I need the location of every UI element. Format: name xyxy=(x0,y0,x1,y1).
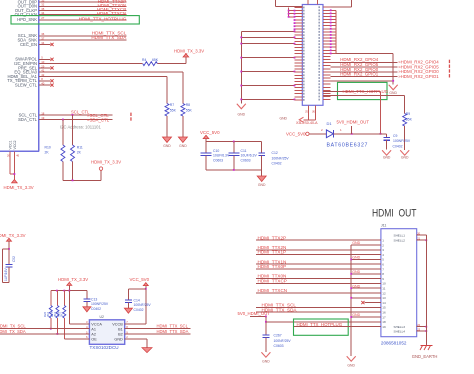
wire net HDMI_TTX_HOTPLUG from U1 pin HPD_SNK xyxy=(17,16,127,22)
svg-text:R11: R11 xyxy=(77,145,83,149)
wire net HDMI_TTX_HOTPLUG from U3 xyxy=(323,89,389,94)
wire net SDA_CTL from U1 pin 19 xyxy=(18,116,112,123)
svg-text:1UF/16V: 1UF/16V xyxy=(4,268,8,281)
green highlight box HPD_SNK xyxy=(11,16,139,24)
off-page flag SDA_CTL xyxy=(130,117,131,120)
capacitor C14 100NF/25V xyxy=(125,289,152,312)
wire net HDMI_TTXCN from U1 pin OUT_CLKN xyxy=(15,11,127,17)
ground under U2 xyxy=(142,348,152,353)
U3 part number xyxy=(296,121,318,125)
wire net HDMI_TTX0P to J11 pin 7 xyxy=(256,264,381,269)
wire net HDMI_TTX_SDA from U1 pin SDA_SNK xyxy=(17,35,127,43)
svg-text:19: 19 xyxy=(382,325,386,329)
J11 shell pin names xyxy=(394,233,406,333)
wire cap rail bottom xyxy=(206,169,262,176)
resistor R4 65K xyxy=(142,58,159,65)
wire R7 to GND xyxy=(166,116,168,137)
note I2C address xyxy=(60,125,101,130)
wire net HDMI_TTX_HOTPLUG to J11 pin 19 xyxy=(294,322,381,327)
svg-text:HDMI_RX2_GPIO1: HDMI_RX2_GPIO1 xyxy=(340,72,379,77)
no-connect U1 pin SLEW_CTL xyxy=(15,82,54,88)
svg-text:VCC_5V0: VCC_5V0 xyxy=(130,277,150,282)
svg-text:HDMI_TX_3.3V: HDMI_TX_3.3V xyxy=(0,233,26,238)
resistor R9 55K xyxy=(403,112,413,126)
svg-text:I2C Address: 1011101: I2C Address: 1011101 xyxy=(60,125,101,130)
svg-text:HDMI_TTX_SCL: HDMI_TTX_SCL xyxy=(157,323,189,328)
svg-text:40: 40 xyxy=(41,82,45,86)
power VCC_5V0 at caps xyxy=(200,130,220,142)
power HDMI_TX_3.3V at C52 xyxy=(0,233,26,265)
svg-text:GND: GND xyxy=(258,183,266,187)
svg-text:SHELL2: SHELL2 xyxy=(394,239,406,243)
wire net HDMI_TTX0N to J11 pin 9 xyxy=(256,274,381,279)
svg-text:C0402: C0402 xyxy=(272,162,282,166)
svg-text:18: 18 xyxy=(382,320,386,324)
svg-text:65K: 65K xyxy=(152,58,159,62)
ground under C14 xyxy=(124,308,132,313)
svg-text:R10: R10 xyxy=(45,145,51,149)
junction on SDA_CTL at R10 xyxy=(62,119,64,121)
wire R9 to GND xyxy=(404,126,406,150)
wire U1 pin I2C_EN/PIN to R4 xyxy=(14,60,143,66)
resistor R7 55K xyxy=(165,103,177,116)
wire net HDMI_TTX2N to J11 pin 3 xyxy=(256,245,381,250)
svg-text:HDMI_TTX_SDA: HDMI_TTX_SDA xyxy=(91,35,127,40)
svg-text:B2: B2 xyxy=(118,333,123,337)
U2 pin names xyxy=(91,323,123,342)
resistor R10 2K xyxy=(45,145,65,162)
svg-text:HDMI_TX_3.3V: HDMI_TX_3.3V xyxy=(174,48,204,53)
wire net HDMI_TX_SCL to U2 A1 xyxy=(0,323,89,328)
power HDMI_TX_3.3V at R4 xyxy=(174,48,204,57)
svg-text:SHELL4: SHELL4 xyxy=(394,329,406,333)
IC U1 HDMI transmitter body edge xyxy=(0,0,39,151)
wire U2 OE row xyxy=(64,338,89,340)
wire net 5V0_HDMI_OUT xyxy=(334,120,387,135)
svg-text:19: 19 xyxy=(41,116,45,120)
title HDMI OUT xyxy=(372,208,417,220)
svg-text:VCCB: VCCB xyxy=(112,323,123,327)
capacitor C13 100NF/25V xyxy=(83,291,109,311)
svg-text:55K: 55K xyxy=(186,109,193,113)
wire U2 GND pin xyxy=(125,339,147,348)
U3 bottom GND pins xyxy=(304,105,316,120)
resistor R27 2K2 xyxy=(50,291,59,318)
svg-text:A1: A1 xyxy=(91,327,96,331)
svg-text:GND: GND xyxy=(238,112,246,116)
svg-text:55K: 55K xyxy=(406,118,413,122)
ground GND left-arrow at U3 bottom xyxy=(279,117,303,123)
svg-text:GND: GND xyxy=(352,270,360,274)
ground GND top right xyxy=(389,85,398,95)
svg-text:HDMI_TTXCN: HDMI_TTXCN xyxy=(258,288,288,293)
svg-text:C52: C52 xyxy=(12,256,16,262)
svg-text:OUT_CLKN: OUT_CLKN xyxy=(15,12,37,17)
svg-text:SHELL1: SHELL1 xyxy=(394,233,406,237)
svg-text:16: 16 xyxy=(382,311,386,315)
svg-text:100NF/25V: 100NF/25V xyxy=(274,339,292,343)
wire net 5V0_HDMI_OUT to J11 xyxy=(238,311,381,335)
ground GND under R7 xyxy=(163,137,172,148)
svg-text:GND: GND xyxy=(352,241,360,245)
svg-text:HDMI_TTX1P: HDMI_TTX1P xyxy=(258,250,287,255)
svg-text:VCC_5V0: VCC_5V0 xyxy=(200,130,220,135)
wire R8 to GND xyxy=(182,116,184,137)
svg-text:TXS0102DCU: TXS0102DCU xyxy=(90,345,119,350)
svg-text:B1: B1 xyxy=(118,327,123,331)
svg-text:HDMI_TX_3.3V: HDMI_TX_3.3V xyxy=(4,185,34,190)
svg-text:14: 14 xyxy=(382,301,386,305)
svg-text:5V0_HDMI_OUT: 5V0_HDMI_OUT xyxy=(337,120,370,125)
capacitor C9 100NF/25V xyxy=(383,134,410,150)
wire SCL_CTL to R11 xyxy=(72,115,74,145)
svg-text:34: 34 xyxy=(41,41,45,45)
wire net HDMI_TX_SDA to U2 A2 xyxy=(0,329,89,334)
svg-text:C267: C267 xyxy=(274,334,282,338)
wire net HDMI_TTX_SCL from U2 B1 xyxy=(125,323,191,328)
svg-text:13: 13 xyxy=(382,296,386,300)
IC U3 body xyxy=(302,5,323,106)
svg-text:HDMI_TTX_HOTPLUG: HDMI_TTX_HOTPLUG xyxy=(343,89,389,94)
resistor R11 2K xyxy=(71,145,83,162)
svg-text:GND: GND xyxy=(389,91,397,95)
power HDMI_TX_3.3V at U1 VCC xyxy=(4,180,34,191)
wire R27 to SDA row xyxy=(57,318,59,335)
ground GND_EARTH xyxy=(412,346,438,359)
svg-text:HDMI_TTXCP: HDMI_TTXCP xyxy=(258,279,287,284)
U1 pins VCC1 VCC2 xyxy=(7,140,20,179)
svg-text:C9: C9 xyxy=(393,134,397,138)
GND bus at J11 xyxy=(350,241,381,356)
svg-text:C11: C11 xyxy=(241,149,247,153)
svg-text:HDMI_TTX2P: HDMI_TTX2P xyxy=(258,235,287,240)
svg-text:GND: GND xyxy=(352,256,360,260)
svg-text:C0603: C0603 xyxy=(213,159,223,163)
wire J11 shells to earth xyxy=(417,235,427,345)
wire net HDMI_TTX1P to J11 pin 4 xyxy=(256,250,381,255)
svg-text:GND: GND xyxy=(114,338,123,342)
wire net HDMI_TTX1N to J11 pin 6 xyxy=(256,259,381,264)
wire net HDMI_RX2_GPIO1 xyxy=(331,72,450,79)
svg-text:HDMI_TTX_HOTPLUG: HDMI_TTX_HOTPLUG xyxy=(79,17,127,22)
wire top-right entry to U3 xyxy=(331,0,352,7)
ground under C13 xyxy=(83,307,91,312)
left GND bus with branches to U3 xyxy=(240,31,295,104)
wire net HDMI_TTX_SDA to J11 pin 16 xyxy=(256,307,381,312)
connector J11 refdes xyxy=(381,224,387,228)
svg-text:J11: J11 xyxy=(381,224,387,228)
J11 pin numbers 1-19 xyxy=(382,239,386,329)
ground GND under left bus xyxy=(237,104,246,117)
wire net HDMI_TTX_SCL to J11 pin 15 xyxy=(256,303,381,308)
svg-text:VCC2: VCC2 xyxy=(13,140,17,149)
svg-text:12: 12 xyxy=(382,291,386,295)
capacitor C267 100NF/25V xyxy=(262,334,291,352)
diode D1 BAT60BE6327 xyxy=(321,121,368,148)
wire R28 to OE row xyxy=(63,318,65,339)
wire U1 pin EQ_SEL/A0 to R8 xyxy=(14,69,182,104)
wire net HDMI_TTXCN to J11 pin 12 xyxy=(256,288,381,293)
off-page flag SCL_CTL xyxy=(130,113,131,116)
svg-text:VCC1: VCC1 xyxy=(8,140,12,149)
svg-text:GND: GND xyxy=(352,284,360,288)
power VCC_5V0 at U2 xyxy=(130,277,150,286)
svg-text:BAT60BE6327: BAT60BE6327 xyxy=(327,143,369,149)
wire C52 parallel loop xyxy=(3,249,10,283)
svg-text:27: 27 xyxy=(41,16,45,20)
svg-text:R9: R9 xyxy=(406,112,410,116)
U3 right pin numbers xyxy=(318,6,320,100)
wire net HDMI_TTX_SCL from U1 pin SCL_SNK xyxy=(18,31,127,39)
svg-text:10UF/6.3V: 10UF/6.3V xyxy=(241,154,258,158)
svg-text:»HDMI_RX2_GPIO1: »HDMI_RX2_GPIO1 xyxy=(398,74,439,79)
svg-text:R7: R7 xyxy=(170,103,174,107)
svg-text:GND_EARTH: GND_EARTH xyxy=(412,354,438,359)
svg-text:HDMI OUT: HDMI OUT xyxy=(372,208,417,220)
svg-text:U2: U2 xyxy=(100,315,104,319)
J11 shell pin numbers xyxy=(417,231,420,331)
svg-text:2K: 2K xyxy=(45,151,50,155)
svg-text:C0402: C0402 xyxy=(134,308,144,312)
svg-text:GND: GND xyxy=(347,363,355,367)
IC U2 TXS0102DCU body xyxy=(89,320,124,345)
U2 part number xyxy=(90,345,119,350)
U3 left pin numbers xyxy=(303,7,305,101)
wire net HDMI_RX2_GPIO5 xyxy=(331,62,450,69)
svg-text:GND: GND xyxy=(383,156,391,160)
wire cap rail top xyxy=(206,141,262,143)
junction on SCL_CTL at R11 xyxy=(72,114,74,116)
svg-text:R4: R4 xyxy=(142,58,146,62)
svg-text:GND: GND xyxy=(401,156,409,160)
svg-text:HDMI_TTX_HOTPLUG: HDMI_TTX_HOTPLUG xyxy=(297,322,343,327)
U2 right pin numbers xyxy=(126,320,128,339)
wire 3.3V pullup rail xyxy=(51,290,87,292)
svg-text:17: 17 xyxy=(382,315,386,319)
green highlight box HDMI_TTX_HOTPLUG bottom xyxy=(294,319,349,335)
wire net HDMI_TTX2P to J11 pin 1 xyxy=(256,235,381,240)
svg-text:D1: D1 xyxy=(327,121,333,126)
wire SDA_CTL to R10 xyxy=(62,120,64,146)
svg-text:55K: 55K xyxy=(170,109,177,113)
ground GND under J11 bus xyxy=(347,356,356,367)
green highlight box HDMI_TTX_HOTPLUG top xyxy=(338,82,388,99)
U2 left pin numbers xyxy=(86,320,88,339)
U3 left pin stubs xyxy=(295,8,303,100)
svg-text:5V0_HDMI_OUT: 5V0_HDMI_OUT xyxy=(238,311,271,316)
svg-text:HDMI_TX_SCL: HDMI_TX_SCL xyxy=(0,323,26,328)
capacitor C12 100NF/25V xyxy=(259,142,290,170)
svg-text:2K2: 2K2 xyxy=(60,312,64,317)
wire net HDMI_TTX0N from U1 pin OUT_D0N xyxy=(17,3,126,9)
svg-text:X3L2S0-40-A: X3L2S0-40-A xyxy=(296,121,318,125)
svg-text:C0603: C0603 xyxy=(274,344,284,348)
wire VCC_5V0 to D1 xyxy=(309,133,326,135)
no-connect U1 pin PRE_SEL xyxy=(18,64,53,70)
svg-text:C12: C12 xyxy=(272,151,278,155)
svg-text:100NF/25V: 100NF/25V xyxy=(393,139,411,143)
ground GND under caps xyxy=(257,176,266,187)
U3 right collector bus xyxy=(330,9,336,54)
wire net HDMI_TTX_SDA from U2 B2 xyxy=(125,329,191,334)
svg-text:11: 11 xyxy=(382,287,385,291)
wire R26 to SCL row xyxy=(50,318,52,330)
wire net HDMI_RX2_GPIO4 xyxy=(331,57,450,64)
wire collector to GND xyxy=(336,53,393,84)
wire U1 pin HDMI_SEL_/A1 to R7 xyxy=(7,73,167,104)
svg-text:HDMI_TX_SDA: HDMI_TX_SDA xyxy=(0,329,26,334)
wire R10/R11 common rail xyxy=(63,162,101,182)
svg-text:VCCA: VCCA xyxy=(91,323,102,327)
capacitor C10 10UF/6.3V xyxy=(201,142,230,170)
resistor R8 55K xyxy=(181,103,193,116)
ground GND under R9 xyxy=(400,150,409,159)
svg-text:18: 18 xyxy=(41,111,45,115)
svg-text:VCC_5V0: VCC_5V0 xyxy=(286,131,306,136)
wire top-left entry to U3 xyxy=(276,0,303,6)
svg-text:HPD_SNK: HPD_SNK xyxy=(17,17,37,22)
svg-text:»SDA_CTL: »SDA_CTL xyxy=(87,117,110,122)
svg-text:10UF/6.3V: 10UF/6.3V xyxy=(213,154,230,158)
svg-text:HDMI_TX_3.3V: HDMI_TX_3.3V xyxy=(58,277,88,282)
svg-text:100NF/25V: 100NF/25V xyxy=(91,302,109,306)
no-connect U1 pin CEC_EN xyxy=(20,41,54,47)
svg-text:C10: C10 xyxy=(213,149,219,153)
svg-text:HDMI_TTX_SDA: HDMI_TTX_SDA xyxy=(157,329,189,334)
ground GND under C267 xyxy=(261,352,270,363)
svg-text:OE: OE xyxy=(91,338,97,342)
svg-text:100NF/25V: 100NF/25V xyxy=(272,156,290,160)
U3 right pin stubs xyxy=(323,7,331,99)
capacitor C52 1UF/16V xyxy=(4,248,16,283)
no-connect U1 pin SWAP/POL xyxy=(15,56,53,62)
wire U3 hotplug to R9 xyxy=(323,95,405,113)
svg-text:C14: C14 xyxy=(134,298,140,302)
wire R4 to HDMI_TX_3.3V xyxy=(157,57,186,63)
no-connect J11 pin 14 xyxy=(361,301,381,304)
svg-text:GND: GND xyxy=(262,359,270,363)
svg-text:SLEW_CTL: SLEW_CTL xyxy=(15,83,38,88)
svg-text:SDA_CTL: SDA_CTL xyxy=(18,117,38,122)
wire U2 VCCA to 3.3V rail xyxy=(69,291,89,324)
svg-text:C13: C13 xyxy=(91,297,97,301)
svg-text:15: 15 xyxy=(382,306,386,310)
svg-text:2086581052: 2086581052 xyxy=(381,340,407,345)
U2 refdes xyxy=(100,315,104,319)
svg-text:HDMI_TTX0P: HDMI_TTX0P xyxy=(258,264,287,269)
svg-text:A2: A2 xyxy=(91,333,96,337)
wire net HDMI_RX2_GPIO0 xyxy=(331,67,450,74)
svg-text:2K: 2K xyxy=(77,151,82,155)
U3 left pin cluster junctions xyxy=(288,8,296,31)
wire net HDMI_TTXCP to J11 pin 10 xyxy=(256,279,381,284)
svg-text:100NF/25V: 100NF/25V xyxy=(134,303,152,307)
U3 top pin stubs xyxy=(308,0,317,5)
wire net SCL_CTL from U1 pin 18 xyxy=(19,110,113,118)
wire U3 DGND pin xyxy=(331,80,394,82)
J11 part number xyxy=(381,340,407,345)
svg-text:GND: GND xyxy=(163,144,171,148)
resistor R28 2K2 xyxy=(57,291,66,318)
svg-text:CEC_EN: CEC_EN xyxy=(20,42,37,47)
svg-text:10: 10 xyxy=(382,282,386,286)
svg-text:34: 34 xyxy=(41,11,45,15)
wire net HDMI_TTXCP from U1 pin OUT_CLKP xyxy=(15,7,127,13)
connector J11 body xyxy=(381,229,417,337)
power pad VCC_5V0 at D1 xyxy=(286,131,309,136)
svg-text:GND: GND xyxy=(352,313,360,317)
power HDMI_TX_3.3V at pullup rail xyxy=(58,277,88,291)
ground GND under C9 xyxy=(382,150,391,159)
junction hotplug/5V vertical xyxy=(380,92,382,135)
capacitor C11 10UF/6.3V xyxy=(228,142,257,170)
svg-text:GND: GND xyxy=(179,144,187,148)
svg-text:R8: R8 xyxy=(186,103,190,107)
svg-text:C0603: C0603 xyxy=(241,159,251,163)
svg-text:C0402: C0402 xyxy=(393,144,403,148)
no-connect U1 pin TX_TERM_CTL xyxy=(7,77,53,83)
power pad HDMI_TX_3.3V at R10/R11 xyxy=(91,160,121,171)
svg-text:HDMI_TX_3.3V: HDMI_TX_3.3V xyxy=(91,160,121,165)
svg-text:GND: GND xyxy=(279,117,287,121)
wire net HDMI_TTX0P from U1 pin OUT_D0P xyxy=(18,0,127,5)
resistor R26 2K2 xyxy=(43,291,52,318)
svg-text:C0402: C0402 xyxy=(91,307,101,311)
wire U2 VCCB to VCC_5V0 xyxy=(125,286,147,324)
ground GND under R8 xyxy=(178,137,187,148)
